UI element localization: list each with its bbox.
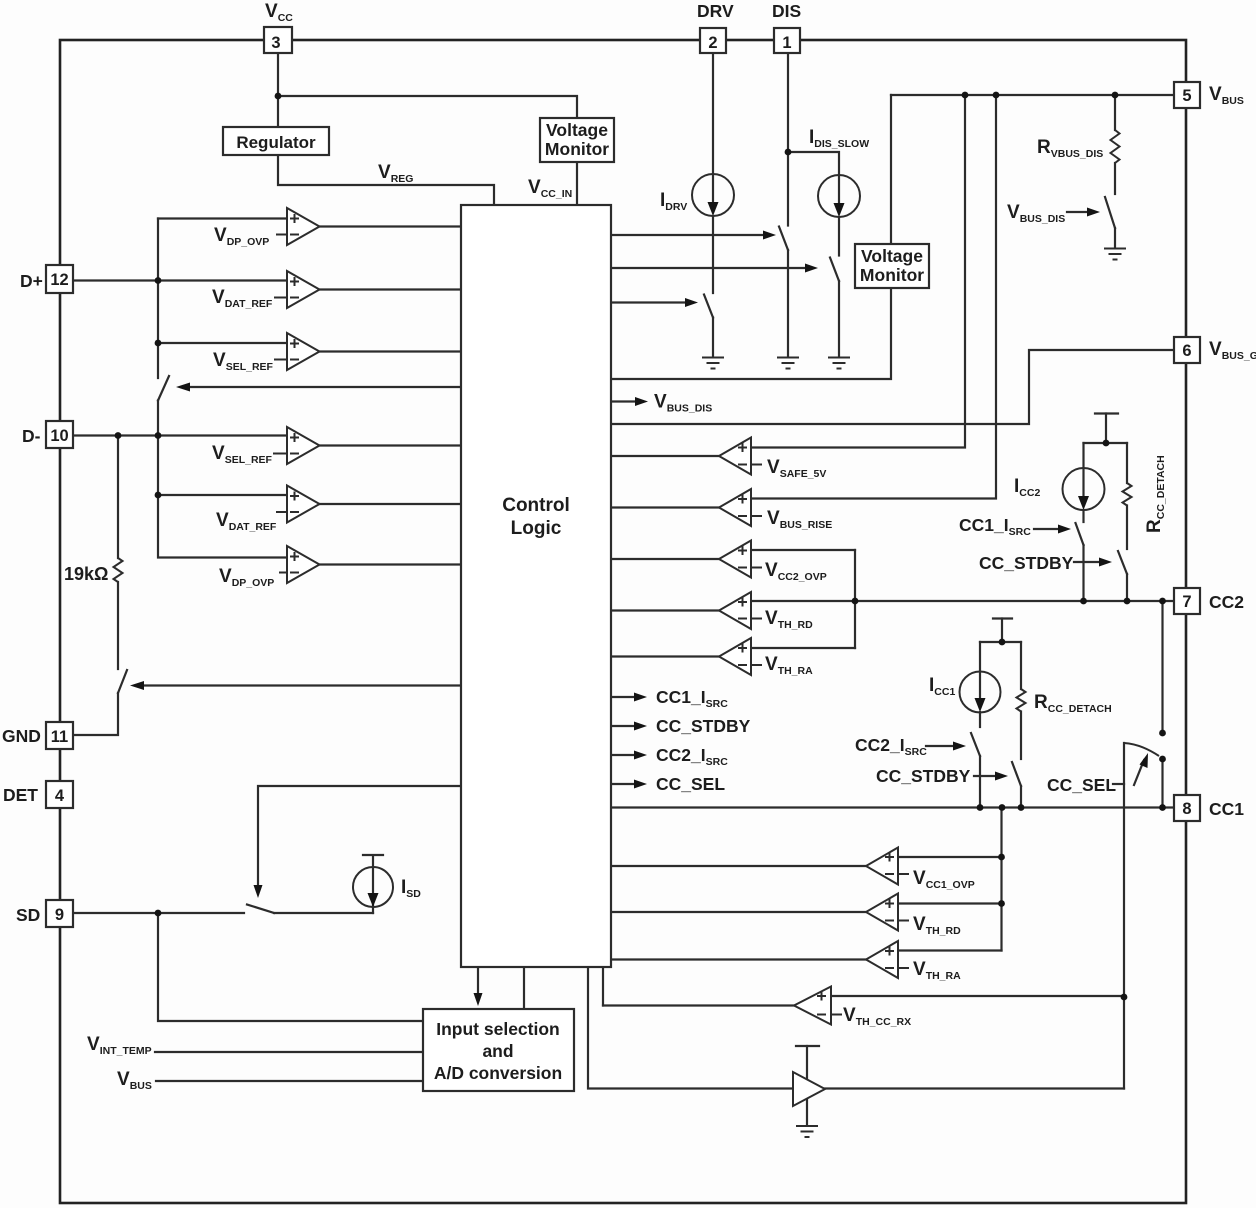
svg-text:10: 10 xyxy=(50,427,68,445)
svg-text:12: 12 xyxy=(50,271,68,289)
svg-text:5: 5 xyxy=(1182,87,1191,105)
svg-text:Monitor: Monitor xyxy=(545,139,609,159)
svg-text:Control: Control xyxy=(502,495,570,516)
svg-text:8: 8 xyxy=(1182,800,1191,818)
svg-text:19kΩ: 19kΩ xyxy=(64,564,108,584)
svg-text:CC_STDBY: CC_STDBY xyxy=(656,716,751,736)
svg-text:9: 9 xyxy=(55,906,64,924)
svg-text:4: 4 xyxy=(55,787,65,805)
svg-text:DRV: DRV xyxy=(697,1,734,21)
svg-text:CC_STDBY: CC_STDBY xyxy=(979,553,1074,573)
svg-text:DIS: DIS xyxy=(772,1,801,21)
svg-text:Voltage: Voltage xyxy=(861,246,923,266)
svg-text:D-: D- xyxy=(22,426,41,446)
svg-text:11: 11 xyxy=(51,728,68,746)
svg-text:Input selection: Input selection xyxy=(436,1019,559,1039)
svg-text:1: 1 xyxy=(782,34,791,52)
svg-text:CC2: CC2 xyxy=(1209,592,1244,612)
svg-text:3: 3 xyxy=(271,34,280,52)
svg-text:GND: GND xyxy=(2,726,41,746)
svg-text:6: 6 xyxy=(1182,342,1191,360)
svg-text:and: and xyxy=(482,1041,513,1061)
svg-text:SD: SD xyxy=(16,905,40,925)
svg-text:A/D conversion: A/D conversion xyxy=(434,1063,562,1083)
svg-text:Monitor: Monitor xyxy=(860,265,924,285)
svg-text:Regulator: Regulator xyxy=(236,133,316,152)
svg-text:Voltage: Voltage xyxy=(546,120,608,140)
svg-text:CC_SEL: CC_SEL xyxy=(1047,775,1116,795)
svg-text:2: 2 xyxy=(708,34,717,52)
svg-text:D+: D+ xyxy=(20,271,43,291)
svg-text:CC_STDBY: CC_STDBY xyxy=(876,766,971,786)
svg-text:DET: DET xyxy=(3,785,38,805)
svg-text:CC1: CC1 xyxy=(1209,799,1244,819)
svg-text:CC_SEL: CC_SEL xyxy=(656,774,725,794)
svg-text:7: 7 xyxy=(1182,593,1191,611)
svg-text:Logic: Logic xyxy=(511,518,562,539)
